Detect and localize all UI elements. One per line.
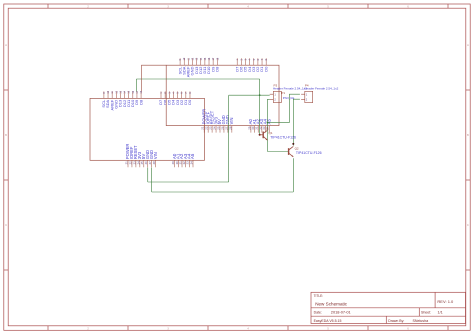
svg-text:14: 14 xyxy=(124,90,127,93)
svg-text:1: 1 xyxy=(274,92,276,96)
junction at Q1 base xyxy=(259,134,261,136)
svg-text:D8: D8 xyxy=(214,66,219,72)
svg-text:15: 15 xyxy=(204,57,207,60)
svg-text:C: C xyxy=(467,224,469,227)
svg-text:2: 2 xyxy=(164,92,167,94)
svg-text:5: 5 xyxy=(253,58,256,60)
svg-text:Date:: Date: xyxy=(314,311,322,315)
svg-text:EasyEDA V5.5.15: EasyEDA V5.5.15 xyxy=(314,319,342,323)
svg-text:TITLE:: TITLE: xyxy=(314,294,324,298)
wire top horizontal run xyxy=(136,78,259,80)
svg-text:18: 18 xyxy=(216,57,219,60)
svg-text:4: 4 xyxy=(172,92,175,94)
Arduino UNO_R3 shield P1 power header pins xyxy=(203,126,205,133)
svg-text:7: 7 xyxy=(185,92,188,94)
svg-text:REV: 1.0: REV: 1.0 xyxy=(437,299,454,304)
Arduino UNO_R3 shield P2 analog header pins A0-A5 xyxy=(174,160,176,167)
svg-text:4: 4 xyxy=(247,327,249,330)
transistor Q1 base wire xyxy=(260,134,264,136)
svg-text:Header Female 2.54_1x2: Header Female 2.54_1x2 xyxy=(304,87,338,91)
svg-text:2: 2 xyxy=(306,98,308,102)
svg-text:16: 16 xyxy=(132,90,135,93)
svg-text:1: 1 xyxy=(306,92,308,96)
transistor Q2 collector xyxy=(289,146,294,150)
Arduino UNO_R3 shield P2 power header pins xyxy=(127,160,129,167)
Arduino UNO_R3 shield P1 analog header pins A0-A5 xyxy=(250,126,252,133)
svg-text:2018-07-01: 2018-07-01 xyxy=(331,310,351,315)
svg-text:P1: P1 xyxy=(281,91,285,95)
transistor Q2 base bar xyxy=(288,148,290,155)
wire H4 horizontal xyxy=(268,122,290,124)
svg-text:SNelusha: SNelusha xyxy=(413,319,429,323)
svg-text:4: 4 xyxy=(249,58,252,60)
svg-text:9: 9 xyxy=(103,92,106,94)
svg-text:12: 12 xyxy=(115,90,118,93)
header P4 pins 1-2 xyxy=(301,93,305,95)
svg-text:TIP41CTU-F126: TIP41CTU-F126 xyxy=(270,136,296,140)
svg-text:New Schematic: New Schematic xyxy=(315,301,348,306)
svg-text:VIN: VIN xyxy=(229,118,234,125)
svg-text:VIN: VIN xyxy=(153,152,158,159)
svg-text:A: A xyxy=(467,44,469,47)
svg-text:B: B xyxy=(5,134,7,137)
wire V7 from P4 pin1 xyxy=(289,94,300,122)
svg-text:Q2: Q2 xyxy=(295,146,299,150)
svg-text:A5: A5 xyxy=(190,153,195,159)
svg-text:Sheet:: Sheet: xyxy=(421,311,431,315)
svg-text:Q1: Q1 xyxy=(269,131,273,135)
svg-text:2: 2 xyxy=(274,98,276,102)
sheet frame zone ticks xyxy=(47,4,49,8)
svg-text:5: 5 xyxy=(177,92,180,94)
svg-text:17: 17 xyxy=(212,57,215,60)
transistor Q1 collector xyxy=(263,131,267,134)
wire D8 of P2 to P1 edge xyxy=(142,65,167,91)
transistor Q2 emitter with arrow xyxy=(289,153,294,157)
Arduino UNO_R3 shield P1 body xyxy=(166,65,279,125)
transistor Q2 base wire xyxy=(287,151,290,153)
svg-text:TIP41CTU-F126: TIP41CTU-F126 xyxy=(296,151,322,155)
svg-text:1/1: 1/1 xyxy=(438,311,443,315)
svg-text:5: 5 xyxy=(327,327,329,330)
svg-text:A: A xyxy=(5,44,7,47)
svg-text:8: 8 xyxy=(265,58,268,60)
svg-text:11: 11 xyxy=(187,57,190,60)
header P3 body xyxy=(273,91,281,102)
header P4 body xyxy=(305,91,313,102)
svg-text:8: 8 xyxy=(189,92,192,94)
svg-text:PhO_Ra: PhO_Ra xyxy=(283,96,295,100)
svg-text:12: 12 xyxy=(191,57,194,60)
wire down to Q1 base node xyxy=(259,79,261,135)
svg-text:1: 1 xyxy=(236,58,239,60)
wire P3 pin1 horizontal xyxy=(229,94,270,96)
svg-text:Drawn By:: Drawn By: xyxy=(388,319,404,323)
svg-text:A5: A5 xyxy=(266,118,271,124)
svg-text:C: C xyxy=(5,224,7,227)
svg-text:2: 2 xyxy=(87,327,89,330)
svg-text:10: 10 xyxy=(107,90,110,93)
svg-text:13: 13 xyxy=(119,90,122,93)
svg-text:D0: D0 xyxy=(263,66,268,72)
svg-text:7: 7 xyxy=(261,58,264,60)
svg-text:3: 3 xyxy=(168,92,171,94)
svg-text:13: 13 xyxy=(196,57,199,60)
title block box and dividers xyxy=(311,292,466,323)
wire Q2 emitter down xyxy=(292,158,294,192)
svg-text:Header Female 2.54_1x2: Header Female 2.54_1x2 xyxy=(273,87,307,91)
wire P2 GND2 down xyxy=(151,168,153,193)
Arduino UNO_R3 shield P1 digital header pins D7-D0 xyxy=(236,58,238,65)
svg-text:3: 3 xyxy=(244,58,247,60)
svg-text:11: 11 xyxy=(111,90,114,93)
svg-text:16: 16 xyxy=(208,57,211,60)
junction at wire cross xyxy=(259,94,261,96)
Arduino UNO_R3 shield P1 digital header pins SCL-D8 xyxy=(179,58,181,65)
svg-text:2: 2 xyxy=(240,58,243,60)
svg-text:D0: D0 xyxy=(187,99,192,105)
wire to Q2 base xyxy=(268,151,289,153)
svg-text:6: 6 xyxy=(257,58,260,60)
svg-text:14: 14 xyxy=(200,57,203,60)
svg-text:6: 6 xyxy=(407,327,409,330)
svg-text:9: 9 xyxy=(179,58,182,60)
svg-text:D8: D8 xyxy=(138,99,143,105)
junction at H4 V8 xyxy=(267,122,269,124)
wire V6 from P4 pin2 xyxy=(293,99,300,145)
Arduino UNO_R3 shield P2 digital header pins SCL-D8 xyxy=(103,91,105,98)
junction at Q2 collector xyxy=(292,143,294,145)
svg-text:28: 28 xyxy=(152,161,156,165)
wire P2 GND down xyxy=(147,168,149,183)
svg-text:15: 15 xyxy=(128,90,131,93)
transistor Q1 base bar xyxy=(262,132,264,139)
header P3 pins 1-2 xyxy=(270,93,274,95)
Arduino UNO_R3 shield P2 body xyxy=(90,98,205,160)
svg-text:1: 1 xyxy=(160,92,163,94)
wire P3 pin2 to vertical xyxy=(268,99,270,151)
svg-text:34: 34 xyxy=(189,161,193,165)
transistor Q1 emitter with arrow xyxy=(263,136,267,140)
wire bottom horizontal run xyxy=(152,191,294,193)
svg-text:10: 10 xyxy=(183,57,186,60)
Arduino UNO_R3 shield P2 digital header pins D7-D0 xyxy=(160,91,162,98)
svg-text:6: 6 xyxy=(181,92,184,94)
svg-text:3: 3 xyxy=(167,327,169,330)
svg-text:B: B xyxy=(467,134,469,137)
wire vertical through P1 VIN xyxy=(228,95,230,182)
wire D9 of P2 up xyxy=(135,79,137,91)
wire horizontal to P2 GND xyxy=(148,181,229,183)
